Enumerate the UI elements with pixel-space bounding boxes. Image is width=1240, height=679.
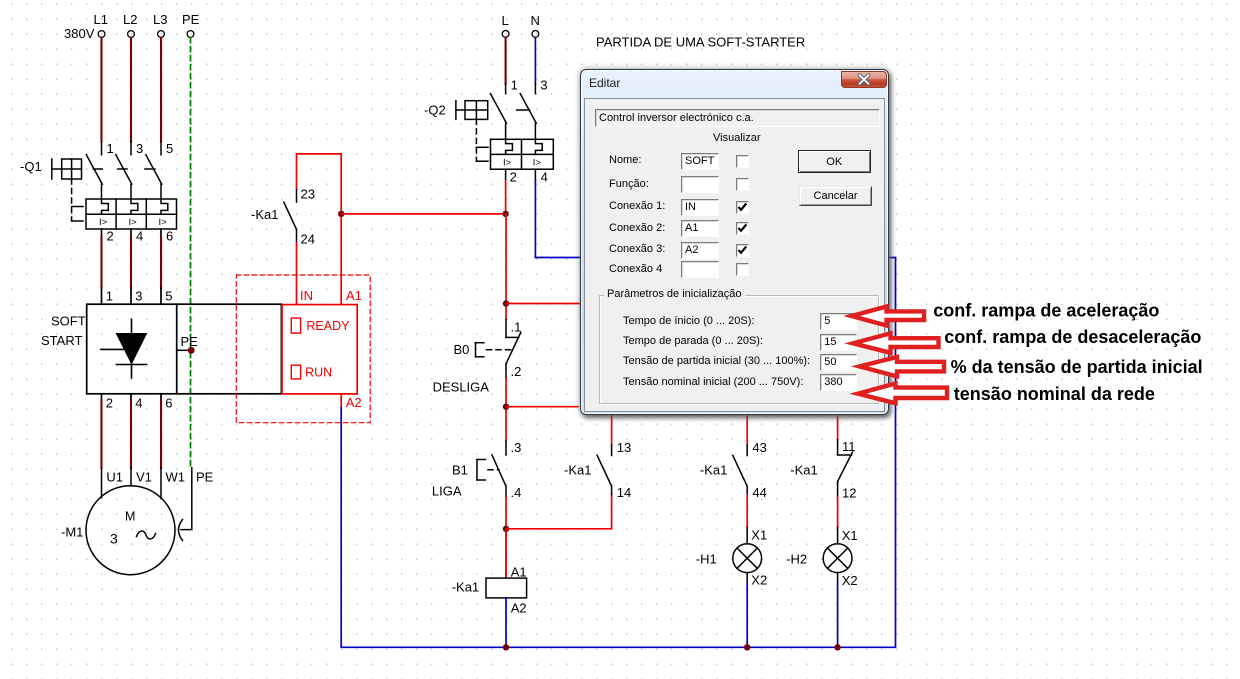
terminal L3 — [153, 12, 167, 37]
svg-text:13: 13 — [617, 440, 631, 455]
contact Ka1 13-14 label — [564, 463, 591, 478]
svg-text:2: 2 — [106, 396, 113, 411]
svg-text:-Ka1: -Ka1 — [452, 580, 479, 595]
wire node2 right — [506, 406, 578, 408]
svg-text:A2: A2 — [511, 601, 527, 616]
coil Ka1 wire A1 — [505, 529, 507, 578]
contact Ka1 23-24 wire top — [297, 154, 342, 214]
soft-starter pin 2 — [106, 396, 113, 411]
pin A1 coil — [511, 565, 527, 580]
pin .3 — [511, 440, 522, 455]
wire Q2 pin2 down — [505, 169, 507, 214]
wire node3 to Ka1 14 — [506, 495, 612, 529]
pin 23 — [301, 187, 315, 202]
label 380V — [64, 26, 95, 41]
wire A2 red segment — [340, 394, 342, 408]
svg-text:-Ka1: -Ka1 — [700, 463, 727, 478]
pushbutton B0 contact — [506, 320, 521, 379]
breaker Q2 pin 2 — [510, 170, 517, 185]
label A1 — [346, 288, 362, 303]
label LIGA — [432, 484, 462, 499]
svg-text:-Ka1: -Ka1 — [564, 463, 591, 478]
breaker Q1 pin 5 — [166, 141, 173, 156]
svg-text:M: M — [125, 510, 135, 524]
label IN — [300, 288, 313, 303]
svg-text:L: L — [502, 13, 509, 28]
junction bus 3 — [834, 644, 840, 650]
svg-text:X2: X2 — [842, 573, 858, 588]
dialog window Editar — [580, 69, 889, 415]
motor terminal W1 — [166, 470, 186, 485]
soft-starter PE tap — [177, 334, 198, 354]
wire soft-starter to motor W1 — [160, 394, 162, 499]
svg-text:14: 14 — [617, 485, 631, 500]
svg-text:U1: U1 — [106, 470, 123, 485]
svg-text:1: 1 — [511, 78, 518, 93]
soft-starter label START — [41, 333, 82, 348]
svg-text:-Q1: -Q1 — [20, 159, 42, 174]
soft-starter pin 3 — [135, 289, 142, 304]
annotation arrow 2 — [853, 333, 939, 352]
motor M1 circle — [86, 486, 175, 575]
junction node 3 — [503, 526, 509, 532]
annotation text 4 — [954, 384, 1155, 404]
svg-text:.1: .1 — [511, 320, 522, 335]
wire Ka1 43 top — [746, 416, 748, 445]
breaker Q2 pin 1 — [511, 78, 518, 93]
svg-text:N: N — [531, 13, 540, 28]
pin 43 — [752, 440, 766, 455]
svg-text:.2: .2 — [511, 364, 522, 379]
contact Ka1 43-44 — [733, 445, 747, 495]
svg-text:START: START — [41, 333, 82, 348]
junction node 1 — [503, 300, 509, 306]
thyristor symbol — [101, 319, 147, 378]
svg-text:W1: W1 — [166, 470, 186, 485]
breaker Q2 handle — [456, 101, 530, 162]
svg-text:SOFT: SOFT — [51, 314, 86, 329]
breaker Q1 pole 1 contact — [86, 142, 102, 200]
svg-text:3: 3 — [540, 78, 547, 93]
svg-text:A2: A2 — [346, 395, 362, 410]
soft-starter control box — [282, 305, 357, 394]
wire H2 to bus — [837, 573, 839, 648]
svg-text:.4: .4 — [511, 485, 522, 500]
pin 13 — [617, 440, 631, 455]
wire N down — [534, 37, 536, 83]
breaker Q1 pin 1 — [107, 141, 114, 156]
breaker Q1 linkage dashed — [72, 169, 155, 221]
contact Ka1 13-14 — [597, 445, 611, 495]
contact Ka1 23-24 — [284, 190, 297, 243]
motor terminal V1 — [136, 470, 152, 485]
svg-text:1: 1 — [106, 289, 113, 304]
annotation text 3 — [951, 357, 1203, 377]
wire Ka1 13 top — [611, 416, 613, 445]
svg-text:I>: I> — [129, 217, 138, 228]
pushbutton B0 actuator — [476, 343, 513, 357]
svg-text:43: 43 — [752, 440, 766, 455]
svg-text:4: 4 — [136, 229, 143, 244]
pin .2 — [511, 364, 522, 379]
lamp H1 label — [696, 552, 717, 567]
svg-text:24: 24 — [301, 232, 315, 247]
svg-text:PE: PE — [196, 470, 214, 485]
wire Q1 to soft-starter phase 1 — [101, 229, 103, 304]
svg-text:380V: 380V — [64, 26, 95, 41]
soft-starter U1 box — [87, 304, 282, 394]
wire H1 to bus — [746, 573, 748, 648]
wire node1 right — [506, 303, 582, 305]
svg-text:2: 2 — [107, 229, 114, 244]
svg-text:I>: I> — [503, 157, 512, 168]
svg-text:PARTIDA DE UMA SOFT-STARTER: PARTIDA DE UMA SOFT-STARTER — [596, 35, 805, 50]
wire coil to bus — [505, 598, 507, 647]
svg-text:READY: READY — [306, 319, 350, 333]
breaker Q1 overload box — [86, 199, 177, 229]
wire soft-starter to motor V1 — [130, 394, 132, 486]
wire B0 to node2 — [505, 378, 507, 441]
wire L1 — [100, 38, 102, 142]
label A2 — [346, 395, 362, 410]
svg-text:I>: I> — [159, 217, 168, 228]
wire L3 — [160, 38, 162, 142]
lamp H2 label — [786, 552, 807, 567]
svg-text:X1: X1 — [842, 528, 858, 543]
svg-text:-M1: -M1 — [61, 525, 83, 540]
coil Ka1 label — [452, 580, 479, 595]
svg-text:2: 2 — [510, 170, 517, 185]
lamp H2 — [823, 544, 852, 573]
pin X1 of H1 — [751, 528, 767, 543]
svg-text:44: 44 — [752, 485, 766, 500]
pushbutton B1 actuator — [477, 460, 499, 481]
label B1 — [452, 463, 468, 478]
wire B1 to node3 — [505, 497, 507, 578]
breaker Q1 pin 4 — [136, 229, 143, 244]
svg-text:I>: I> — [99, 217, 108, 228]
annotation arrow 4 — [858, 383, 947, 403]
pin X2 of H1 — [751, 573, 767, 588]
breaker Q2 pin 3 — [540, 78, 547, 93]
svg-text:B0: B0 — [454, 342, 470, 357]
junction node 2 — [503, 404, 509, 410]
svg-text:5: 5 — [165, 289, 172, 304]
title text — [596, 35, 805, 50]
junction L1 control — [502, 211, 508, 217]
pin 12 — [842, 486, 856, 501]
svg-text:PE: PE — [182, 12, 200, 27]
terminal L — [502, 13, 510, 37]
pin A2 coil — [511, 601, 527, 616]
motor M1 text M — [125, 510, 135, 524]
terminal PE — [182, 12, 200, 37]
svg-text:6: 6 — [165, 396, 172, 411]
breaker Q1 pole 2 contact — [116, 142, 132, 200]
svg-text:LIGA: LIGA — [432, 484, 462, 499]
breaker Q1 I> symbols — [99, 217, 167, 228]
terminal N — [531, 13, 540, 37]
svg-text:A1: A1 — [511, 565, 527, 580]
wire control bus y214 — [341, 213, 506, 215]
READY indicator — [291, 318, 350, 333]
pin 44 — [752, 485, 766, 500]
soft-starter label SOFT — [51, 314, 86, 329]
svg-text:X1: X1 — [751, 528, 767, 543]
pin .4 — [511, 485, 522, 500]
breaker Q1 pin 2 — [107, 229, 114, 244]
motor M1 sine symbol — [137, 531, 156, 539]
junction A1 node — [338, 211, 344, 217]
breaker Q2 pin 4 — [541, 170, 548, 185]
breaker Q2 overload box — [491, 139, 554, 169]
svg-text:1: 1 — [107, 141, 114, 156]
svg-text:B1: B1 — [452, 463, 468, 478]
wire Ka1 11 top — [837, 416, 839, 440]
wire Q1 to soft-starter phase 3 — [160, 229, 162, 304]
breaker Q1 pin 6 — [166, 229, 173, 244]
svg-text:.3: .3 — [511, 440, 522, 455]
svg-text:4: 4 — [135, 396, 142, 411]
wire PE to motor frame — [179, 468, 192, 541]
junction bus 2 — [744, 644, 750, 650]
wire A2 blue down to bus — [341, 408, 895, 648]
svg-text:12: 12 — [842, 486, 856, 501]
breaker Q1 pin 3 — [136, 141, 143, 156]
breaker Q1 label — [20, 159, 42, 174]
contact Ka1 11-12 — [838, 440, 853, 497]
wire soft-starter to motor U1 — [101, 394, 103, 498]
annotation text 1 — [933, 300, 1159, 320]
soft-starter pin 6 — [165, 396, 172, 411]
breaker Q2 label — [424, 103, 446, 118]
svg-text:3: 3 — [135, 289, 142, 304]
breaker Q2 pole L contact — [490, 84, 506, 140]
svg-text:-H2: -H2 — [786, 552, 807, 567]
svg-text:X2: X2 — [751, 573, 767, 588]
junction bus 1 — [503, 644, 509, 650]
svg-text:3: 3 — [110, 531, 118, 547]
svg-text:-H1: -H1 — [696, 552, 717, 567]
svg-text:23: 23 — [301, 187, 315, 202]
breaker Q2 I> symbols — [503, 157, 541, 168]
terminal L2 — [123, 12, 137, 37]
wire A1 node to soft-starter A1 — [340, 214, 342, 305]
svg-text:DESLIGA: DESLIGA — [433, 380, 490, 395]
wire 44 to lamp H1 — [746, 495, 748, 544]
pin X2 of H2 — [842, 573, 858, 588]
wire L2 — [130, 38, 132, 142]
soft-starter control dashed frame — [236, 275, 370, 423]
svg-text:4: 4 — [541, 170, 548, 185]
pin 14 — [617, 485, 631, 500]
svg-text:PE: PE — [181, 334, 199, 349]
pin 24 — [301, 232, 315, 247]
svg-text:5: 5 — [166, 141, 173, 156]
terminal L1 — [94, 12, 108, 37]
wire PE green dashed — [190, 38, 192, 468]
motor M1 text 3 — [110, 531, 118, 547]
svg-text:6: 6 — [166, 229, 173, 244]
wire control main down — [505, 214, 507, 320]
svg-text:-Q2: -Q2 — [424, 103, 446, 118]
breaker Q1 pole 3 contact — [146, 142, 162, 200]
pin X1 of H2 — [842, 528, 858, 543]
coil Ka1 — [486, 578, 527, 598]
svg-text:I>: I> — [533, 157, 542, 168]
svg-text:11: 11 — [842, 439, 856, 454]
svg-text:-Ka1: -Ka1 — [790, 463, 817, 478]
wire Q2 pin4 neutral — [535, 169, 895, 647]
annotation text 2 — [944, 327, 1201, 347]
pin .1 — [511, 320, 522, 335]
soft-starter pin 5 — [165, 289, 172, 304]
svg-text:RUN: RUN — [305, 365, 332, 379]
svg-text:L1: L1 — [94, 12, 108, 27]
pushbutton B1 contact — [492, 441, 506, 497]
svg-text:V1: V1 — [136, 470, 152, 485]
contact Ka1 11-12 label — [790, 463, 817, 478]
lamp H1 — [733, 544, 762, 573]
annotation arrow 3 — [860, 357, 945, 376]
motor terminal PE — [196, 470, 214, 485]
motor M1 label — [61, 525, 83, 540]
breaker Q2 pole N contact — [520, 84, 536, 140]
contact Ka1 43-44 label — [700, 463, 727, 478]
RUN indicator — [291, 365, 332, 379]
wire L down — [505, 37, 507, 83]
svg-text:-Ka1: -Ka1 — [251, 207, 278, 222]
svg-text:L2: L2 — [123, 12, 137, 27]
svg-text:L3: L3 — [153, 12, 167, 27]
soft-starter pin 1 — [106, 289, 113, 304]
svg-text:IN: IN — [300, 288, 313, 303]
svg-text:A1: A1 — [346, 288, 362, 303]
wire Ka1 24 to IN — [296, 243, 298, 305]
soft-starter pin 4 — [135, 396, 142, 411]
breaker Q1 handle — [52, 159, 82, 179]
wire 12 to lamp H2 — [837, 497, 839, 544]
contact Ka1 label — [251, 207, 278, 222]
wire Q1 to soft-starter phase 2 — [130, 229, 132, 304]
svg-text:3: 3 — [136, 141, 143, 156]
label B0 — [454, 342, 470, 357]
annotation arrow 1 — [852, 307, 925, 326]
motor terminal U1 — [106, 470, 123, 485]
pin 11 — [842, 439, 856, 454]
label DESLIGA — [433, 380, 490, 395]
